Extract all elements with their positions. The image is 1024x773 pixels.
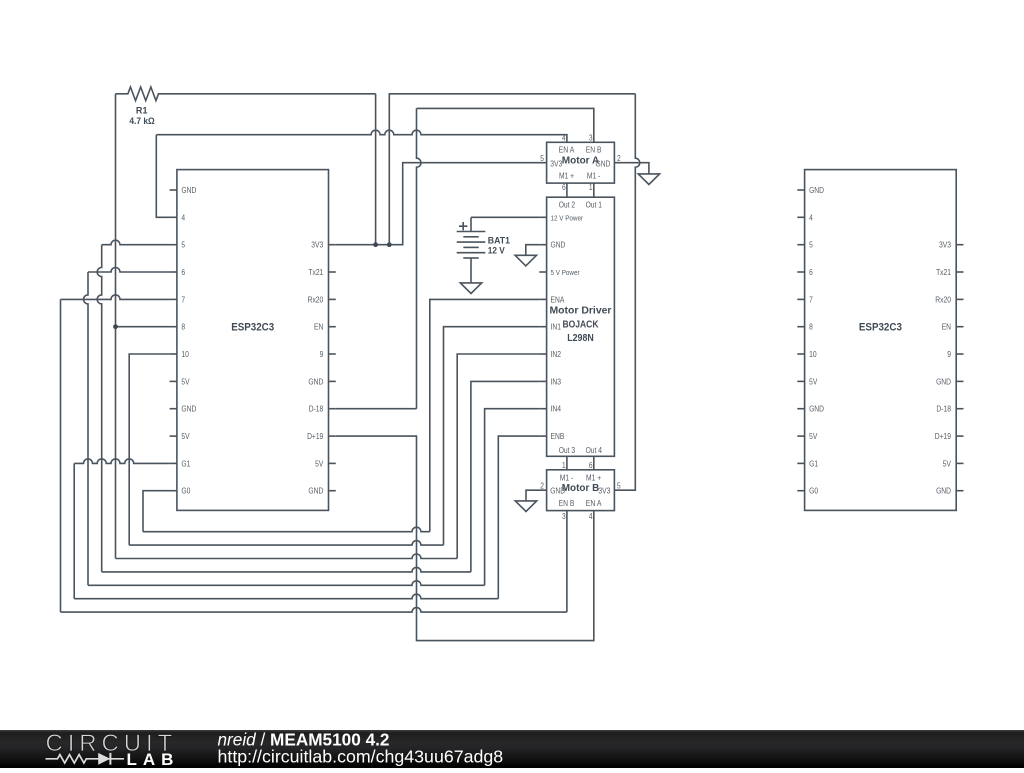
svg-text:3V3: 3V3 <box>311 241 323 250</box>
svg-text:G1: G1 <box>181 459 190 468</box>
svg-text:GND: GND <box>809 405 824 414</box>
svg-text:ESP32C3: ESP32C3 <box>231 322 274 334</box>
svg-text:G0: G0 <box>181 487 190 496</box>
svg-text:M1 +: M1 + <box>586 473 601 482</box>
svg-text:1: 1 <box>589 183 593 192</box>
svg-text:GND: GND <box>181 186 196 195</box>
svg-text:D-18: D-18 <box>309 405 324 414</box>
CircuitLab logo <box>46 730 180 769</box>
svg-text:3: 3 <box>589 133 593 142</box>
wire Motor B GND (pin 2) to ground <box>526 490 547 501</box>
svg-text:http://circuitlab.com/chg43uu6: http://circuitlab.com/chg43uu67adg8 <box>218 746 504 766</box>
svg-text:5V: 5V <box>943 459 952 468</box>
svg-text:GND: GND <box>809 186 824 195</box>
wire R1 right leg down to 3V3 node <box>375 94 377 245</box>
svg-text:4: 4 <box>181 213 185 222</box>
junction dot 3V3 at top loop <box>387 242 392 247</box>
svg-text:ESP32C3: ESP32C3 <box>859 322 902 334</box>
svg-text:GND: GND <box>936 377 951 386</box>
svg-text:GND: GND <box>936 487 951 496</box>
svg-text:D-18: D-18 <box>936 405 951 414</box>
svg-text:5V: 5V <box>181 377 190 386</box>
svg-text:1: 1 <box>562 461 566 470</box>
wire Motor A GND (pin 2) to ground <box>614 163 649 174</box>
footer bar CircuitLab <box>0 730 1024 769</box>
wire ESP pin 7 to Motor B EN B (pin 3) <box>61 295 567 612</box>
wire R1/ESP pin 8 net: left leg down to IN2 loop <box>116 94 170 559</box>
wire driver Out 3 to Motor B M1- (pin 1) <box>566 456 568 470</box>
svg-text:M1 +: M1 + <box>559 172 574 181</box>
svg-text:Out 2: Out 2 <box>559 201 576 210</box>
wire driver GND to ground <box>526 245 540 256</box>
IC U3 Motor Driver BOJACK L298N <box>539 197 614 456</box>
svg-text:EN A: EN A <box>559 146 575 155</box>
wire ESP G0 to driver ENA <box>143 299 539 531</box>
svg-text:GND: GND <box>308 377 323 386</box>
svg-text:Out 4: Out 4 <box>586 446 603 455</box>
svg-text:4.7 kΩ: 4.7 kΩ <box>129 116 155 127</box>
wire Motor A M1+ (pin 6) to driver Out 2 <box>566 183 568 197</box>
ground for BAT1 <box>460 283 481 294</box>
wire BAT1 + to driver 12 V Power <box>471 216 539 218</box>
svg-text:5V: 5V <box>809 432 818 441</box>
wire ESP D+19 to Motor B EN A (pin 4) <box>336 436 594 640</box>
svg-text:Motor Driver: Motor Driver <box>550 305 612 317</box>
svg-text:7: 7 <box>181 295 185 304</box>
svg-text:5: 5 <box>617 481 621 490</box>
svg-text:4: 4 <box>589 512 593 521</box>
svg-text:6: 6 <box>589 461 593 470</box>
wire ESP D-18 to Motor A EN B (pin 3) <box>336 108 594 408</box>
wire 3V3 top loop to Motor B 3V3 (pin 5) <box>389 94 640 490</box>
wire Motor A M1- (pin 1) to driver Out 1 <box>593 183 595 197</box>
junction dot pin8 net <box>113 324 118 329</box>
svg-text:2: 2 <box>540 481 544 490</box>
svg-text:EN A: EN A <box>586 499 602 508</box>
svg-text:EN B: EN B <box>586 146 602 155</box>
svg-text:EN B: EN B <box>559 499 575 508</box>
wire pin8 net bottom run to driver IN2 <box>116 354 540 559</box>
svg-text:EN: EN <box>314 323 323 332</box>
wire ESP 3V3 pin to Motor A 3V3 (pin 5) <box>336 163 547 245</box>
svg-text:D+19: D+19 <box>307 432 324 441</box>
svg-text:Motor B: Motor B <box>562 483 600 494</box>
wire ESP G1 to driver ENB <box>74 436 539 599</box>
svg-text:G1: G1 <box>809 459 818 468</box>
plot title <box>218 729 504 766</box>
svg-text:10: 10 <box>181 350 189 359</box>
svg-text:Out 3: Out 3 <box>559 446 576 455</box>
svg-text:3V3: 3V3 <box>939 241 951 250</box>
svg-text:IN4: IN4 <box>551 405 562 414</box>
resistor R1 4.7 kOhm <box>116 87 376 127</box>
svg-text:4: 4 <box>809 213 813 222</box>
svg-text:M1 -: M1 - <box>587 172 601 181</box>
svg-text:6: 6 <box>809 268 813 277</box>
svg-text:3: 3 <box>562 512 566 521</box>
wire driver Out 4 to Motor B M1+ (pin 6) <box>593 456 595 470</box>
svg-text:L298N: L298N <box>567 332 594 344</box>
wire ESP pin 6 to driver IN4 <box>84 268 540 586</box>
svg-text:5: 5 <box>540 154 544 163</box>
svg-text:2: 2 <box>617 154 621 163</box>
svg-text:BOJACK: BOJACK <box>563 318 599 330</box>
IC U1 ESP32C3 (left) <box>170 170 336 511</box>
ground for driver <box>515 255 536 266</box>
svg-text:6: 6 <box>181 268 185 277</box>
wire ESP pin 5 to driver IN3 <box>97 240 539 572</box>
motor M1 "Motor A" <box>540 133 621 192</box>
svg-text:GND: GND <box>551 241 566 250</box>
wire ESP pin 4 to Motor A EN A (pin 4) <box>156 130 567 217</box>
svg-text:Motor A: Motor A <box>562 156 600 167</box>
svg-text:12 V: 12 V <box>488 246 506 257</box>
svg-text:9: 9 <box>320 350 324 359</box>
svg-text:3V3: 3V3 <box>598 487 610 496</box>
motor M2 "Motor B" <box>540 461 621 521</box>
svg-text:D+19: D+19 <box>935 432 952 441</box>
svg-text:IN1: IN1 <box>551 323 562 332</box>
svg-text:LAB: LAB <box>127 750 180 768</box>
svg-text:IN3: IN3 <box>551 377 562 386</box>
svg-text:6: 6 <box>562 183 566 192</box>
junction dot 3V3 at R1 leg <box>373 242 378 247</box>
svg-text:ENA: ENA <box>551 295 565 304</box>
svg-text:12 V Power: 12 V Power <box>551 213 584 222</box>
svg-text:EN: EN <box>942 323 951 332</box>
svg-text:Out 1: Out 1 <box>586 201 603 210</box>
svg-text:G0: G0 <box>809 487 818 496</box>
svg-text:5: 5 <box>181 241 185 250</box>
svg-text:8: 8 <box>809 323 813 332</box>
wire ESP pin 10 to driver IN1 <box>129 327 539 545</box>
svg-text:Tx21: Tx21 <box>936 268 951 277</box>
svg-text:5V: 5V <box>809 377 818 386</box>
svg-text:IN2: IN2 <box>551 350 562 359</box>
ground for Motor B <box>515 501 536 512</box>
svg-text:Tx21: Tx21 <box>308 268 323 277</box>
svg-text:Rx20: Rx20 <box>308 295 324 304</box>
svg-text:7: 7 <box>809 295 813 304</box>
svg-text:9: 9 <box>947 350 951 359</box>
svg-text:5: 5 <box>809 241 813 250</box>
svg-text:10: 10 <box>809 350 817 359</box>
svg-text:5V: 5V <box>315 459 324 468</box>
svg-text:GND: GND <box>181 405 196 414</box>
battery BAT1 12 V <box>457 217 511 283</box>
svg-text:8: 8 <box>181 323 185 332</box>
IC U2 ESP32C3 (right) <box>797 170 963 511</box>
svg-text:5V: 5V <box>181 432 190 441</box>
svg-text:ENB: ENB <box>551 432 565 441</box>
svg-text:GND: GND <box>308 487 323 496</box>
svg-text:5 V Power: 5 V Power <box>551 268 581 277</box>
svg-text:Rx20: Rx20 <box>935 295 951 304</box>
svg-text:M1 -: M1 - <box>560 473 574 482</box>
ground for Motor A <box>638 174 659 185</box>
